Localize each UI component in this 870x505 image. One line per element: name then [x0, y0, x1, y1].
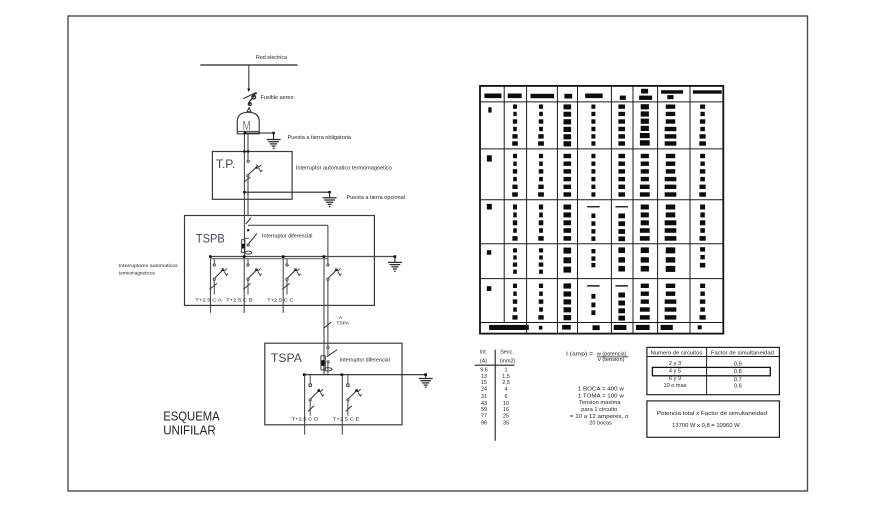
table r1c6 text block: [618, 105, 625, 146]
table r2c9 text block: [699, 154, 706, 197]
svg-text:T+2.5 C C: T+2.5 C C: [267, 297, 294, 303]
table r5c5 text block: [587, 285, 599, 315]
table r5c6 text block: [616, 285, 628, 320]
table r2c1 text block: [487, 155, 492, 161]
table: factor de simultaneidad: [647, 347, 780, 394]
highlight: selected factor row: [652, 367, 770, 375]
breaker: interruptor diferencial (TSPB): [242, 218, 328, 254]
breaker branch D: T+2.5 C D: [292, 375, 324, 435]
svg-text:13700 W x 0,8 = 10960 W: 13700 W x 0,8 = 10960 W: [672, 423, 740, 429]
svg-text:77: 77: [481, 414, 487, 420]
table r5c4 text block: [564, 283, 572, 320]
table r4c4 text block: [564, 248, 572, 273]
table r4c2 text block: [513, 248, 517, 274]
svg-text:20 bocas: 20 bocas: [589, 421, 612, 427]
svg-text:v (tension): v (tension): [598, 357, 625, 363]
svg-text:25: 25: [503, 414, 509, 420]
table r1c8 text block: [665, 105, 677, 146]
table r4c7 text block: [641, 247, 649, 271]
table r2c8 text block: [665, 154, 677, 197]
svg-text:Interruptor diferencial: Interruptor diferencial: [340, 357, 390, 363]
table r2c2 text block: [512, 154, 518, 197]
svg-text:TSPA: TSPA: [271, 351, 303, 365]
svg-text:I (amp) =: I (amp) =: [566, 352, 593, 358]
svg-text:2,5: 2,5: [502, 380, 510, 386]
svg-text:6: 6: [505, 394, 508, 400]
svg-text:24: 24: [481, 386, 487, 392]
node: TSPB distribution bus: [209, 255, 395, 258]
svg-text:Fusible aereo: Fusible aereo: [261, 95, 294, 101]
note: boca/toma ratings: [570, 386, 629, 426]
svg-text:31: 31: [481, 394, 487, 400]
node: TSPA distribution bus: [303, 373, 426, 376]
svg-text:59: 59: [481, 407, 487, 413]
ground: puesta a tierra obligatoria: [244, 132, 352, 149]
svg-text:para 1 circuito: para 1 circuito: [581, 407, 617, 413]
breaker: interruptor diferencial (TSPA): [321, 347, 390, 375]
svg-text:0,9: 0,9: [734, 362, 742, 368]
wire: a TSPA riser: [324, 315, 350, 328]
svg-text:0,7: 0,7: [734, 377, 742, 383]
svg-text:TSPA: TSPA: [337, 321, 350, 327]
svg-text:T+2.5 C E: T+2.5 C E: [333, 416, 360, 422]
svg-text:10: 10: [503, 401, 509, 407]
table r1c9 text block: [699, 105, 706, 146]
fuse F1: fusible aereo: [243, 92, 293, 111]
table r3c2 text block: [512, 205, 517, 241]
svg-text:16: 16: [503, 407, 509, 413]
svg-text:T+2.5 C D: T+2.5 C D: [292, 416, 319, 422]
svg-text:Interruptor diferencial: Interruptor diferencial: [262, 234, 313, 240]
table r1c2 text block: [512, 105, 518, 146]
table: header labels (illegible text bars): [484, 89, 721, 100]
svg-text:= 10 a 12 amperes, o: = 10 a 12 amperes, o: [570, 414, 629, 420]
svg-text:0,8: 0,8: [734, 369, 742, 375]
table r2c3 text block: [538, 154, 544, 197]
svg-text:35: 35: [503, 420, 509, 426]
ground: TSPB bus earth: [388, 255, 402, 271]
table: circuit schedule grid: [480, 86, 723, 334]
svg-text:4: 4: [505, 386, 508, 392]
table r4c1 text block: [487, 250, 492, 255]
table r5c2 text block: [512, 284, 517, 320]
meter M: [237, 112, 259, 134]
note: potencia total box: [647, 401, 780, 437]
table r3c3 text block: [538, 205, 543, 241]
table r1c3 text block: [538, 105, 544, 146]
breaker branch 3: T+2.5 C C: [267, 259, 300, 313]
svg-text:9,6: 9,6: [480, 368, 488, 374]
table r2c6 text block: [618, 154, 625, 197]
svg-text:T+2.5 C A: T+2.5 C A: [195, 297, 222, 303]
table r1c4 text block: [564, 104, 572, 146]
breaker branch E: T+2.5 C E: [333, 375, 362, 435]
panel TSPA box: [265, 343, 402, 425]
breaker branch 4: feed to TSPA: [324, 225, 341, 374]
svg-text:Interruptor automatico termoma: Interruptor automatico termomagnetico: [296, 165, 392, 171]
table r5c8 text block: [665, 284, 677, 320]
svg-text:T+2.5 C B: T+2.5 C B: [226, 297, 253, 303]
wire: tap to TSPA feed (bypass): [248, 224, 328, 226]
svg-text:96: 96: [481, 420, 487, 426]
table r3c1 text block: [487, 204, 492, 210]
svg-text:Puesta a tierra obligatoria: Puesta a tierra obligatoria: [288, 135, 352, 141]
table r4c9 text block: [700, 247, 705, 267]
table r3c8 text block: [665, 205, 677, 241]
svg-text:Numero de circuitos: Numero de circuitos: [651, 350, 703, 356]
svg-text:4 y 5: 4 y 5: [669, 369, 681, 375]
breaker branch 1: T+2.5 C A: [195, 259, 228, 313]
note: current formula: [566, 352, 628, 364]
panel T.P. box: [212, 152, 292, 200]
svg-text:Red electrica: Red electrica: [256, 55, 287, 61]
svg-text:10 o mas: 10 o mas: [664, 383, 687, 389]
table r1c7 text block: [640, 104, 650, 145]
svg-text:1,5: 1,5: [502, 374, 510, 380]
svg-text:Factor de simultaneidad: Factor de simultaneidad: [711, 350, 774, 356]
svg-text:Puesta a tierra opcional: Puesta a tierra opcional: [347, 195, 406, 201]
svg-text:1: 1: [505, 368, 508, 374]
svg-text:Potencia total x Factor de sim: Potencia total x Factor de simultaneidad: [657, 411, 767, 417]
svg-text:1 TOMA = 100 w: 1 TOMA = 100 w: [578, 393, 625, 399]
title: ESQUEMA UNIFILAR: [163, 408, 220, 437]
table r5c3 text block: [538, 284, 543, 320]
svg-text:(mm2): (mm2): [500, 359, 516, 365]
svg-text:Secc.: Secc.: [500, 350, 513, 356]
svg-text:TSPB: TSPB: [196, 231, 225, 245]
ground: TSPA bus earth: [419, 373, 433, 387]
table: int-secc ampacity: [475, 350, 516, 441]
svg-text:1 BOCA = 400 w: 1 BOCA = 400 w: [578, 386, 625, 392]
table r1c1 text block: [488, 107, 491, 112]
table r5c1 text block: [487, 286, 492, 291]
svg-text:13: 13: [481, 374, 487, 380]
breaker Q1: interruptor automatico termomagnetico (T.P.): [243, 150, 392, 215]
wire: meter to T.P. (double conductor): [244, 134, 248, 256]
table r3c7 text block: [640, 205, 650, 241]
table r4c5 text block: [591, 249, 595, 267]
table r4c8 text block: [666, 247, 676, 272]
ground: puesta a tierra opcional: [243, 191, 405, 207]
svg-text:Int.: Int.: [480, 350, 488, 356]
table r2c7 text block: [640, 154, 650, 197]
table r5c9 text block: [700, 284, 706, 320]
panel TSPB box: [185, 216, 375, 306]
label: interruptores automaticos termomagneticos: [119, 263, 179, 276]
table: totals footer bars: [489, 325, 702, 330]
svg-text:6 y 9: 6 y 9: [669, 376, 681, 382]
table r3c6 text block: [616, 206, 628, 241]
table r2c4 text block: [564, 154, 572, 197]
svg-text:termomagneticos: termomagneticos: [119, 270, 156, 276]
table r3c4 text block: [564, 205, 572, 241]
wire: service drop from busbar: [247, 65, 250, 92]
svg-text:M: M: [243, 118, 251, 133]
breaker branch 2: T+2.5 C B: [226, 259, 261, 313]
svg-text:T.P.: T.P.: [216, 157, 235, 171]
table r4c3 text block: [539, 248, 544, 274]
table r1c5 text block: [591, 105, 595, 146]
table r3c9 text block: [700, 205, 706, 241]
svg-text:ESQUEMA: ESQUEMA: [163, 408, 220, 423]
svg-text:0,6: 0,6: [734, 383, 742, 389]
svg-text:Interruptores automaticos: Interruptores automaticos: [119, 263, 179, 269]
table r3c5 text block: [587, 206, 599, 241]
svg-text:2 y 3: 2 y 3: [669, 361, 681, 367]
table r5c7 text block: [640, 284, 650, 320]
svg-text:(A): (A): [480, 359, 487, 365]
svg-text:UNIFILAR: UNIFILAR: [163, 423, 216, 438]
svg-text:15: 15: [481, 380, 487, 386]
svg-text:43: 43: [481, 401, 487, 407]
svg-text:Tension maxima: Tension maxima: [579, 400, 621, 406]
table r2c5 text block: [591, 154, 595, 197]
table r4c6 text block: [618, 247, 625, 271]
node: red electrica supply busbar: [200, 55, 297, 65]
